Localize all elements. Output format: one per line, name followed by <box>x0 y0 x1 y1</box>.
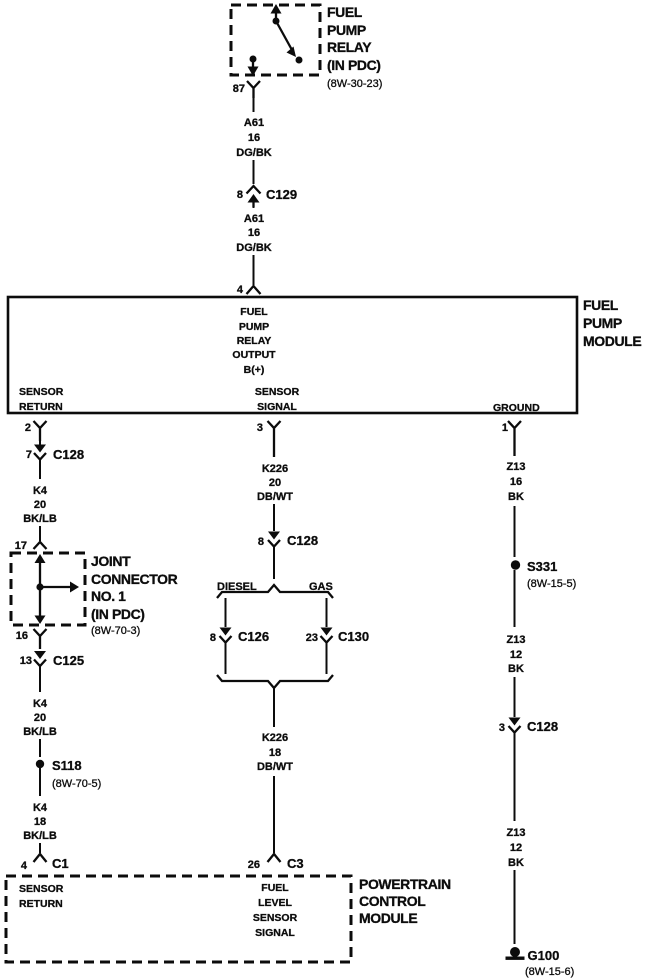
wire label A61 16 DG/BK <box>236 117 272 159</box>
svg-text:4: 4 <box>237 284 244 296</box>
svg-text:C129: C129 <box>266 187 297 202</box>
svg-text:LEVEL: LEVEL <box>258 897 292 909</box>
svg-text:DG/BK: DG/BK <box>236 242 272 254</box>
svg-text:K4: K4 <box>33 802 48 814</box>
joint connector exit arrow down <box>35 587 46 624</box>
svg-text:DB/WT: DB/WT <box>257 761 293 773</box>
splice S118 <box>36 760 44 768</box>
svg-text:3: 3 <box>499 722 505 734</box>
svg-text:RETURN: RETURN <box>19 401 63 413</box>
joint connector branch arrow right <box>40 582 79 593</box>
svg-text:C125: C125 <box>53 653 84 668</box>
svg-text:(8W-70-3): (8W-70-3) <box>91 625 140 637</box>
svg-text:SENSOR: SENSOR <box>253 912 298 924</box>
wire label K4 20 BK/LB <box>23 698 57 738</box>
svg-text:CONNECTOR: CONNECTOR <box>91 571 178 587</box>
svg-text:87: 87 <box>233 83 245 95</box>
connector C130 (pin 23) <box>321 628 333 643</box>
svg-text:MODULE: MODULE <box>359 910 417 926</box>
wire Z13 12 <box>514 570 516 627</box>
svg-text:SENSOR: SENSOR <box>255 386 300 398</box>
svg-text:BK/LB: BK/LB <box>23 726 57 738</box>
connector C128 (pin 3) right <box>509 718 521 733</box>
wire <box>514 733 516 822</box>
wire label K4 20 BK/LB <box>23 485 57 525</box>
svg-text:BK: BK <box>508 491 524 503</box>
svg-text:BK/LB: BK/LB <box>23 513 57 525</box>
svg-text:FUEL: FUEL <box>583 297 619 313</box>
svg-text:PUMP: PUMP <box>327 22 366 38</box>
svg-text:13: 13 <box>20 655 32 667</box>
svg-text:SENSOR: SENSOR <box>19 386 64 398</box>
svg-text:GROUND: GROUND <box>493 402 540 414</box>
svg-text:C128: C128 <box>53 447 84 462</box>
wire gas branch lower <box>326 643 328 675</box>
svg-text:DIESEL: DIESEL <box>217 581 257 593</box>
svg-text:NO. 1: NO. 1 <box>91 588 126 604</box>
fuel pump module box <box>8 297 577 413</box>
svg-text:(8W-70-5): (8W-70-5) <box>52 778 101 790</box>
svg-text:POWERTRAIN: POWERTRAIN <box>359 876 451 892</box>
svg-text:PUMP: PUMP <box>583 315 622 331</box>
svg-text:FUEL: FUEL <box>240 306 268 318</box>
PCM internal label: sensor return <box>19 883 64 910</box>
svg-text:(IN PDC): (IN PDC) <box>327 57 381 73</box>
svg-text:C128: C128 <box>287 533 318 548</box>
svg-text:BK/LB: BK/LB <box>23 830 57 842</box>
svg-text:OUTPUT: OUTPUT <box>232 349 276 361</box>
relay output arrow down to pin 87 <box>248 59 259 76</box>
svg-text:K4: K4 <box>33 485 48 497</box>
svg-text:Z13: Z13 <box>507 461 526 473</box>
svg-text:B(+): B(+) <box>244 364 265 376</box>
svg-text:12: 12 <box>510 649 522 661</box>
svg-text:K226: K226 <box>262 463 288 475</box>
svg-text:16: 16 <box>248 227 260 239</box>
ground G100 <box>506 947 525 960</box>
svg-text:23: 23 <box>306 632 318 644</box>
svg-text:16: 16 <box>16 630 28 642</box>
connector C126 (pin 8) <box>220 628 232 643</box>
wire K4 18 <box>39 768 41 796</box>
pin 1 connector Y <box>508 421 521 456</box>
wire label K4 18 BK/LB <box>23 802 57 842</box>
svg-text:SIGNAL: SIGNAL <box>255 927 295 939</box>
wire label Z13 16 BK <box>507 461 526 503</box>
svg-text:12: 12 <box>510 842 522 854</box>
wire <box>39 441 41 445</box>
svg-text:S118: S118 <box>52 758 82 773</box>
svg-text:A61: A61 <box>244 117 264 129</box>
svg-text:DB/WT: DB/WT <box>257 491 293 503</box>
svg-text:S331: S331 <box>527 559 557 574</box>
svg-text:GAS: GAS <box>309 581 333 593</box>
wire <box>514 506 516 557</box>
svg-text:(IN PDC): (IN PDC) <box>91 606 145 622</box>
svg-text:BK: BK <box>508 663 524 675</box>
svg-text:8: 8 <box>237 189 243 201</box>
svg-text:RETURN: RETURN <box>19 898 63 910</box>
svg-text:FUEL: FUEL <box>261 882 289 894</box>
svg-text:A61: A61 <box>244 213 264 225</box>
svg-text:BK: BK <box>508 857 524 869</box>
pin 26 connector C3 into PCM <box>268 854 281 862</box>
svg-text:C130: C130 <box>338 629 369 644</box>
wire A61 lower <box>253 207 255 208</box>
module internal label: sensor signal <box>255 386 300 413</box>
branch join node <box>217 675 333 688</box>
relay switch arm <box>276 21 296 57</box>
svg-text:C126: C126 <box>238 629 269 644</box>
relay contact arrow up (pin 30 feed) <box>271 4 282 21</box>
wire label Z13 12 BK <box>507 634 526 675</box>
powertrain control module box (dashed) <box>6 876 351 962</box>
wire label Z13 12 BK <box>507 827 526 869</box>
svg-text:20: 20 <box>34 499 46 511</box>
wire diesel branch <box>225 598 227 627</box>
svg-text:C1: C1 <box>52 856 69 871</box>
module internal label: fuel pump relay output B(+) <box>232 306 276 376</box>
wire <box>514 677 516 717</box>
svg-text:4: 4 <box>21 860 28 872</box>
joint connector entry arrow <box>35 554 46 587</box>
svg-text:CONTROL: CONTROL <box>359 893 426 909</box>
svg-text:18: 18 <box>34 816 46 828</box>
pin 2 connector Y <box>34 421 47 441</box>
svg-text:20: 20 <box>269 477 281 489</box>
joint connector bus dot <box>36 583 43 590</box>
wire <box>273 547 275 580</box>
connector C128 (pin 7) <box>34 445 46 460</box>
relay name label <box>327 4 382 90</box>
connector C128 (pin 8) center <box>268 532 280 547</box>
connector C125 (pin 13) <box>34 651 46 666</box>
relay output contact dot <box>250 56 257 63</box>
pin 87 connector Y <box>247 81 260 98</box>
svg-text:20: 20 <box>34 712 46 724</box>
module internal label: sensor return <box>19 386 64 413</box>
relay NO contact dot <box>296 57 303 64</box>
svg-text:Z13: Z13 <box>507 827 526 839</box>
svg-text:FUEL: FUEL <box>327 4 363 20</box>
svg-text:DG/BK: DG/BK <box>236 147 272 159</box>
svg-text:(8W-15-6): (8W-15-6) <box>525 966 574 978</box>
module name label <box>583 297 641 349</box>
wire K4 20 lower <box>39 666 41 692</box>
svg-text:Z13: Z13 <box>507 634 526 646</box>
pin 4 connector into module <box>247 286 261 294</box>
svg-text:C128: C128 <box>527 719 558 734</box>
wire diesel branch lower <box>225 643 227 675</box>
svg-text:RELAY: RELAY <box>327 39 372 55</box>
splice S331 <box>511 560 520 569</box>
svg-text:7: 7 <box>26 449 32 461</box>
pin 17 connector into joint connector <box>34 542 47 549</box>
pin 16 connector Y <box>34 629 47 649</box>
wire <box>253 255 255 285</box>
svg-text:JOINT: JOINT <box>91 553 131 569</box>
svg-text:G100: G100 <box>528 948 560 963</box>
joint connector name label <box>91 553 178 637</box>
svg-text:C3: C3 <box>287 856 304 871</box>
wire A61 upper <box>253 98 255 112</box>
svg-text:2: 2 <box>25 422 31 434</box>
svg-text:SIGNAL: SIGNAL <box>257 401 297 413</box>
svg-text:18: 18 <box>269 747 281 759</box>
svg-text:(8W-30-23): (8W-30-23) <box>327 78 382 90</box>
joint connector no. 1 box (dashed) <box>11 553 85 625</box>
svg-text:8: 8 <box>210 632 216 644</box>
svg-text:MODULE: MODULE <box>583 333 641 349</box>
PCM name label <box>359 876 451 926</box>
wire label K226 18 DB/WT <box>257 732 293 773</box>
wire label K226 20 DB/WT <box>257 463 293 503</box>
svg-text:16: 16 <box>510 476 522 488</box>
pin 3 connector Y <box>268 421 281 457</box>
relay common contact dot <box>273 18 280 25</box>
connector C129 (pin 8) <box>247 186 261 207</box>
svg-text:16: 16 <box>248 132 260 144</box>
relay box: fuel pump relay (dashed) <box>231 5 320 75</box>
svg-text:3: 3 <box>257 422 263 434</box>
svg-text:SENSOR: SENSOR <box>19 883 64 895</box>
wire label A61 16 DG/BK <box>236 213 272 254</box>
svg-text:(8W-15-5): (8W-15-5) <box>527 578 576 590</box>
wire <box>273 776 275 853</box>
wire <box>39 739 41 757</box>
svg-text:1: 1 <box>502 422 508 434</box>
svg-text:RELAY: RELAY <box>237 335 272 347</box>
branch split node <box>217 585 333 598</box>
svg-text:17: 17 <box>15 540 27 552</box>
wire <box>253 160 255 184</box>
wire K226 18 <box>273 688 275 727</box>
pin 4 connector C1 into PCM <box>34 854 47 862</box>
svg-text:26: 26 <box>248 859 260 871</box>
svg-text:K4: K4 <box>33 698 48 710</box>
PCM internal label: fuel level sensor signal <box>253 882 298 939</box>
wire <box>39 526 41 541</box>
svg-text:PUMP: PUMP <box>239 321 269 333</box>
svg-text:8: 8 <box>258 536 264 548</box>
wire <box>39 843 41 853</box>
wire gas branch <box>326 598 328 627</box>
wire K4 20 <box>39 460 41 480</box>
svg-text:K226: K226 <box>262 732 288 744</box>
wire <box>514 870 516 944</box>
wire <box>273 504 275 531</box>
